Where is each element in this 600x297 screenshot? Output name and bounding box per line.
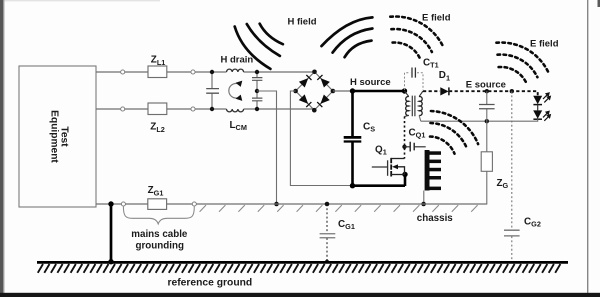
- wire E source (dashed): [423, 91, 538, 95]
- svg-text:H drain: H drain: [221, 55, 254, 66]
- node CG1 chassis: [325, 202, 330, 207]
- wire bridge negative return: [290, 91, 352, 186]
- diode bridge: [296, 72, 333, 110]
- LED D2: [533, 92, 551, 105]
- wire L2 (bottom mains line): [96, 109, 314, 110]
- chassis hatching: [200, 205, 478, 212]
- capacitor CQ1 (parasitic to heatsink): [405, 127, 426, 151]
- node bridge top: [312, 70, 317, 75]
- node H source right: [402, 88, 407, 93]
- node MOSFET source corner: [402, 172, 407, 177]
- capacitor CG1: [320, 219, 355, 238]
- capacitor CY1 (upper Y-cap): [252, 72, 262, 91]
- node loop bottom left: [350, 183, 355, 188]
- node E line / output cap: [485, 89, 489, 93]
- capacitor CG2: [504, 217, 541, 236]
- capacitor CY2 (lower Y-cap): [252, 91, 262, 109]
- svg-text:H field: H field: [288, 17, 317, 28]
- svg-text:grounding: grounding: [136, 241, 184, 252]
- wire heatsink to chassis: [423, 191, 425, 205]
- wire Y-cap mid to chassis: [257, 91, 277, 204]
- node bridge left: [293, 89, 298, 94]
- transistor Q1: [372, 144, 405, 176]
- brace mains cable grounding: [123, 207, 194, 252]
- E field arcs top (from CT1): [390, 16, 443, 58]
- wire L1 (top mains line): [96, 71, 315, 73]
- E field arcs middle (from heatsink): [430, 111, 478, 154]
- impedance ZG: [424, 121, 509, 204]
- svg-text:E field: E field: [422, 13, 451, 24]
- node earth bottom: [108, 259, 113, 264]
- svg-text:mains cable: mains cable: [131, 229, 188, 240]
- wire mains ground / chassis line: [96, 203, 487, 205]
- node bridge right: [331, 89, 336, 94]
- capacitor CS: [344, 122, 376, 142]
- Test Equipment box: [19, 66, 96, 207]
- svg-text:chassis: chassis: [417, 213, 454, 224]
- wire bridge positive to H source node: [333, 90, 353, 92]
- svg-text:H source: H source: [350, 77, 391, 88]
- wire CG1 (dashed drop): [326, 204, 328, 262]
- wire H source loop (thick): [351, 91, 405, 186]
- wire TE earth (thick): [110, 204, 113, 262]
- node X-cap bottom: [210, 107, 214, 111]
- common-mode choke LCM: [227, 69, 247, 132]
- svg-text:reference ground: reference ground: [168, 278, 253, 289]
- diode D1: [439, 70, 450, 95]
- node H source left: [350, 88, 355, 93]
- node Y-cap top: [255, 70, 259, 74]
- terminal circles on L1: [121, 70, 125, 74]
- node heatsink chassis: [421, 202, 426, 207]
- wire drain (dashed): [404, 117, 406, 159]
- node E line / CG2: [510, 89, 514, 93]
- wire LED return: [421, 119, 538, 121]
- LED D3: [533, 105, 551, 121]
- terminal circles ground wire: [121, 202, 125, 206]
- svg-text:E source: E source: [466, 80, 506, 91]
- terminal circles on L2: [121, 107, 125, 111]
- H field arcs left: [235, 24, 283, 69]
- node X-cap top: [210, 70, 214, 74]
- node Y-cap bottom: [255, 107, 259, 111]
- capacitor CX (X-cap between lines): [206, 72, 219, 109]
- transformer T1: [405, 91, 424, 121]
- E field arcs right (from LEDs): [496, 42, 548, 82]
- node TE ground: [108, 201, 113, 206]
- node bridge bottom: [312, 108, 317, 113]
- node H drain chassis: [274, 202, 279, 207]
- capacitor CT1 (parasitic, dashed loop): [405, 58, 439, 91]
- svg-text:E field: E field: [530, 39, 559, 50]
- node CQ1 tap: [402, 145, 406, 149]
- impedance ZG1: [148, 185, 167, 209]
- capacitor Cout: [479, 91, 495, 121]
- heatsink: [425, 150, 441, 191]
- reference ground line: [37, 261, 568, 264]
- node return / output cap: [485, 119, 489, 123]
- reference ground hatching: [38, 264, 561, 273]
- H field arcs right: [322, 17, 373, 57]
- impedance ZL1: [148, 55, 167, 78]
- wire CG2 (dotted drop): [511, 91, 513, 261]
- node CG1 ground: [325, 260, 329, 264]
- node Y-cap mid: [255, 89, 259, 93]
- impedance ZL2: [148, 103, 167, 134]
